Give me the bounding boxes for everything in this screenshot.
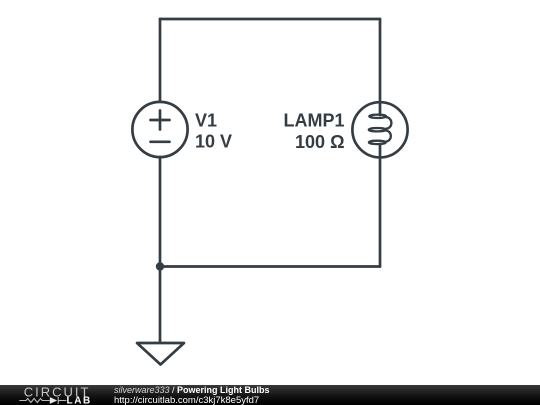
wire right upper <box>379 19 382 115</box>
wire left lower <box>159 157 162 266</box>
footer line 1 <box>114 386 270 395</box>
wire top horizontal <box>160 18 380 21</box>
voltage source V1 <box>132 102 187 157</box>
junction node <box>156 262 164 270</box>
svg-text:100 Ω: 100 Ω <box>295 132 344 152</box>
footer bar <box>0 385 540 405</box>
CircuitLab logo <box>0 384 110 405</box>
wire left upper <box>159 19 162 102</box>
logo wire/resistor/diode <box>19 397 66 404</box>
svg-text:LAB: LAB <box>67 396 92 405</box>
svg-text:10 V: 10 V <box>195 131 232 151</box>
footer line 2 <box>114 396 259 405</box>
svg-text:V1: V1 <box>195 110 217 130</box>
svg-text:LAMP1: LAMP1 <box>283 110 344 130</box>
lamp LAMP1 <box>352 102 407 157</box>
filament coil <box>369 115 392 144</box>
wire ground lead <box>159 267 162 343</box>
wire bottom horizontal <box>160 265 380 268</box>
ground <box>137 343 184 365</box>
wire right lower <box>379 158 382 267</box>
